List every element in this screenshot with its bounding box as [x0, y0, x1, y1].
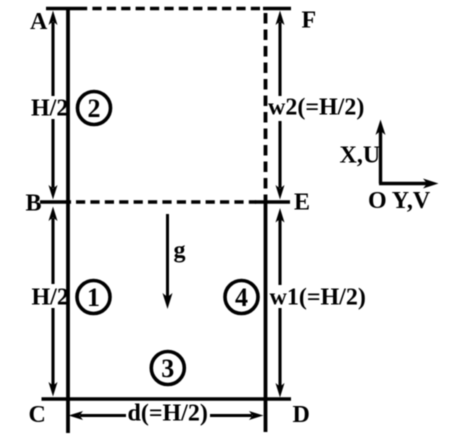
wall ED (right lower, solid)	[264, 200, 268, 432]
dimension arrow w2 (F to E)	[276, 11, 285, 200]
svg-text:g: g	[174, 238, 186, 264]
region marker 1 (circle)	[77, 281, 110, 314]
boundary FE (right upper, dashed)	[264, 13, 268, 200]
region marker 3 (circle)	[151, 352, 184, 385]
dimension arrow H/2 upper (A to B)	[49, 11, 58, 200]
svg-text:E: E	[294, 190, 310, 216]
wall AC (left, solid)	[66, 7, 70, 433]
svg-text:w1(=H/2): w1(=H/2)	[270, 285, 366, 311]
tick at corner F	[263, 7, 291, 10]
dimension arrow H/2 lower (B to C)	[49, 207, 58, 397]
axis X,U (vertical arrow)	[376, 120, 386, 184]
svg-text:O Y,V: O Y,V	[368, 188, 431, 214]
gravity arrow g	[163, 214, 173, 309]
svg-text:1: 1	[87, 283, 100, 312]
svg-text:C: C	[29, 402, 46, 428]
svg-text:d(=H/2): d(=H/2)	[128, 401, 208, 427]
svg-text:4: 4	[235, 283, 248, 312]
svg-text:H/2: H/2	[32, 285, 69, 311]
interface BE (middle, dashed)	[76, 200, 256, 203]
boundary AF (top, dashed)	[78, 7, 265, 10]
svg-text:D: D	[293, 402, 310, 428]
tick at corner B	[40, 200, 71, 203]
region marker 4 (circle)	[225, 281, 258, 314]
svg-text:2: 2	[88, 94, 101, 123]
tick at corner A	[46, 7, 78, 10]
svg-text:X,U: X,U	[340, 143, 381, 169]
svg-text:w2(=H/2): w2(=H/2)	[268, 95, 364, 121]
svg-text:B: B	[26, 191, 42, 217]
axis Y,V (horizontal arrow)	[379, 179, 439, 189]
svg-text:H/2: H/2	[31, 96, 68, 122]
dimension arrow d (C to D)	[69, 411, 264, 420]
wall CD (bottom, solid)	[42, 397, 292, 400]
tick at corner E	[255, 200, 290, 203]
svg-text:F: F	[302, 8, 317, 34]
svg-text:3: 3	[161, 354, 174, 383]
svg-text:A: A	[30, 9, 48, 35]
dimension arrow w1 (E to D)	[276, 208, 285, 398]
region marker 2 (circle)	[78, 92, 111, 125]
